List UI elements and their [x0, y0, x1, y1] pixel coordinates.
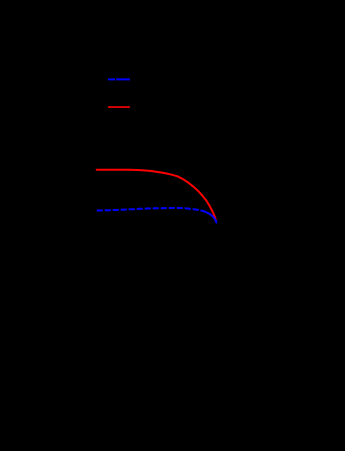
legend blue dashed line sample	[108, 78, 130, 80]
blue curve solid tail into the drop	[207, 213, 216, 223]
legend red solid line sample	[108, 106, 130, 108]
blue dashed curve (main dashed portion)	[97, 208, 207, 213]
red solid curve	[97, 170, 216, 221]
